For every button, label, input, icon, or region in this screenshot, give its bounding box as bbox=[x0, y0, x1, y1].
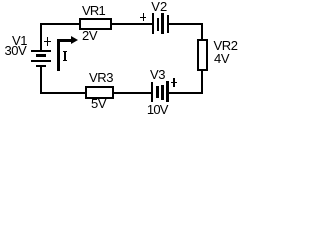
label I (current) bbox=[0, 0, 1, 1]
resistor VR1 bbox=[79, 18, 112, 30]
value 10V bbox=[147, 103, 168, 116]
wire bottom-right corner to battery V3 bbox=[169, 92, 203, 94]
value 30V bbox=[5, 44, 27, 57]
wire top-left corner to resistor VR1 bbox=[40, 23, 79, 25]
current arrow I (bent, pointing right into top wire) bbox=[0, 0, 1, 1]
resistor VR3 bbox=[85, 86, 114, 99]
wire right side upper (corner to VR2) bbox=[201, 23, 203, 41]
wire V2 to top-right corner bbox=[169, 23, 203, 25]
label V1 bbox=[12, 34, 27, 47]
plus sign of V2 bbox=[0, 0, 1, 1]
label VR1 bbox=[82, 4, 105, 17]
battery V3 bbox=[0, 0, 1, 1]
battery V2 bbox=[0, 0, 1, 1]
battery V1 bbox=[0, 0, 1, 1]
wire left side lower (battery V1 - to corner) bbox=[40, 67, 42, 94]
wire VR3 to bottom-left corner bbox=[40, 92, 85, 94]
value 2V bbox=[82, 29, 97, 42]
label V2 bbox=[151, 0, 167, 13]
value 5V bbox=[91, 97, 106, 110]
plus sign of V1 bbox=[0, 0, 1, 1]
wire V3 to resistor VR3 bbox=[114, 92, 152, 94]
wire right side lower (VR2 to corner) bbox=[201, 70, 203, 95]
value 4V bbox=[214, 52, 229, 65]
label VR3 bbox=[89, 71, 113, 84]
plus sign of V3 bbox=[0, 0, 1, 1]
wire VR1 to battery V2 bbox=[112, 23, 152, 25]
wire left side upper (corner to battery V1 +) bbox=[40, 23, 42, 51]
label VR2 bbox=[214, 39, 238, 52]
label V3 bbox=[150, 68, 165, 81]
resistor VR2 bbox=[197, 39, 207, 71]
